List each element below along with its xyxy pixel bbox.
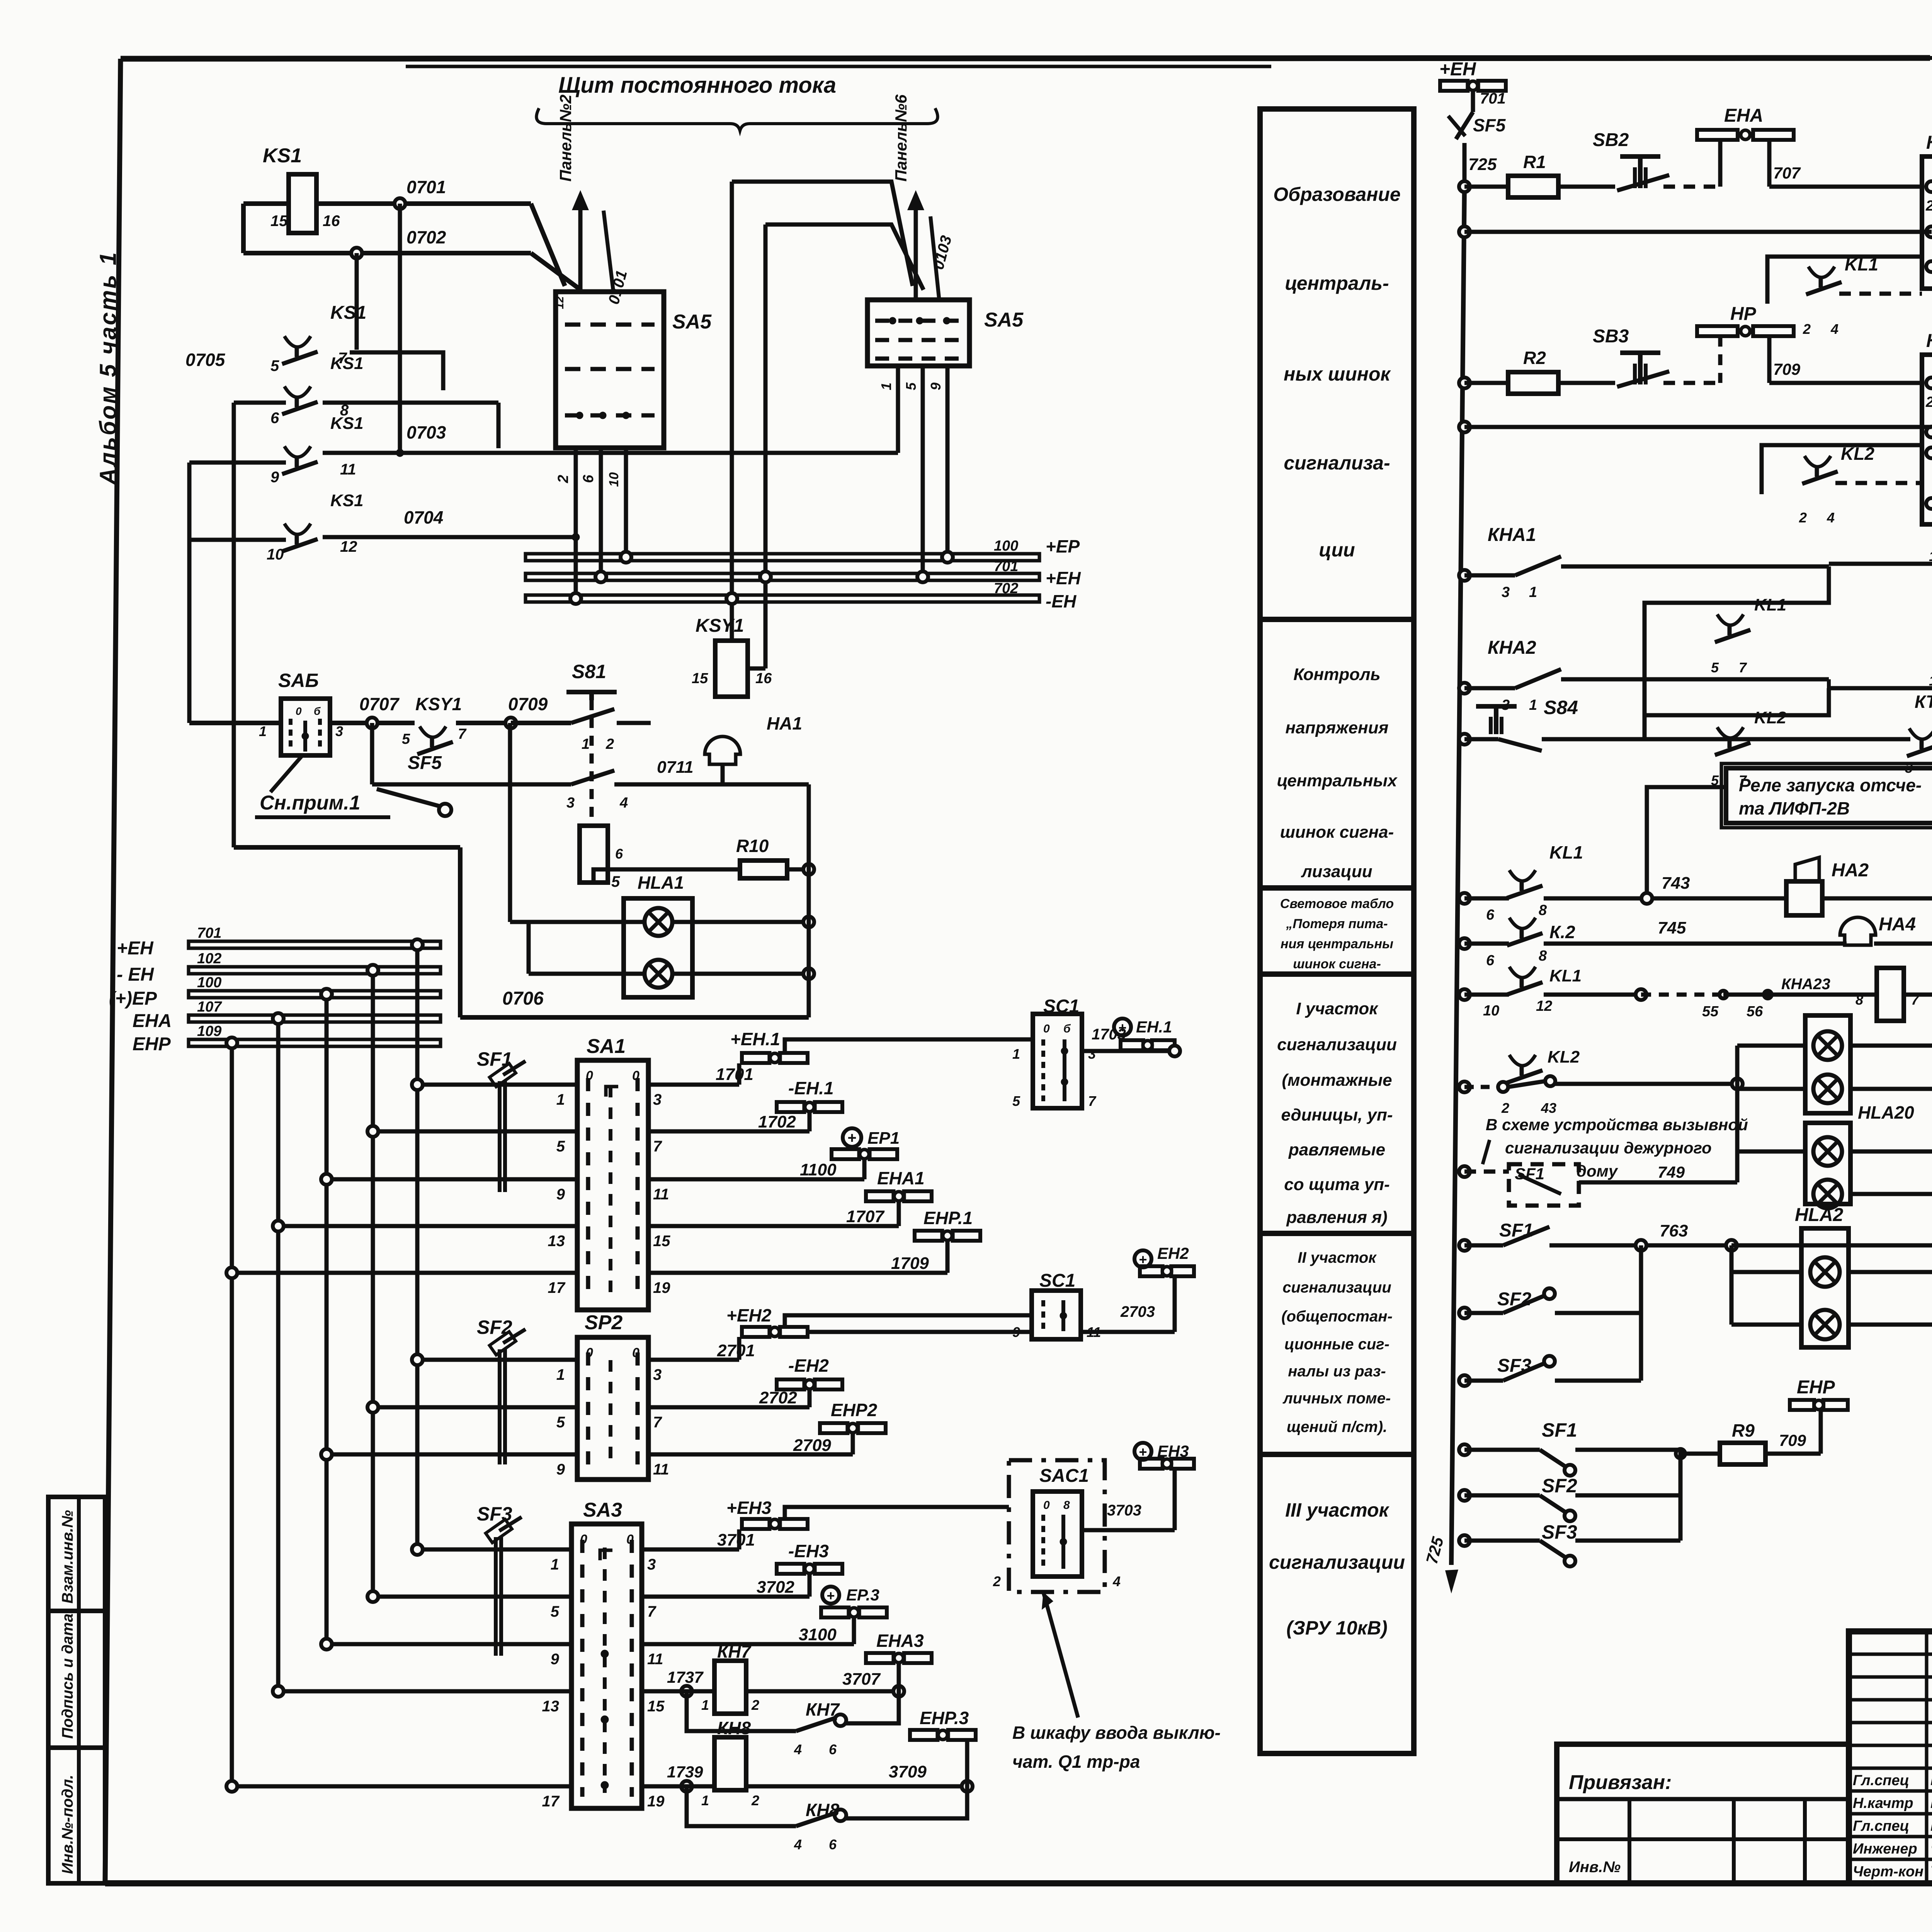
svg-text:2: 2: [751, 1793, 759, 1808]
svg-text:В шкафу ввода выклю-: В шкафу ввода выклю-: [1012, 1723, 1221, 1743]
svg-text:0: 0: [626, 1532, 634, 1547]
svg-text:3703: 3703: [1107, 1502, 1141, 1519]
lamp box HLA1: [510, 723, 814, 997]
svg-text:III участок: III участок: [1285, 1499, 1389, 1521]
lamp box HLA2: [1731, 1194, 1932, 1347]
SA3 row 1-3 wire: [412, 1544, 656, 1573]
SA5-2 pin stems: [878, 366, 947, 577]
svg-text:ционные сиг-: ционные сиг-: [1284, 1336, 1389, 1353]
switch block SP2: [577, 1311, 648, 1480]
svg-text:Привязан:: Привязан:: [1569, 1771, 1672, 1794]
svg-text:ЕНР: ЕНР: [133, 1034, 171, 1054]
svg-text:2: 2: [1501, 1100, 1509, 1116]
svg-text:7: 7: [653, 1414, 662, 1431]
svg-text:3709: 3709: [889, 1762, 927, 1781]
svg-text:0: 0: [632, 1345, 639, 1360]
svg-text:Тимофеева: Тимофеева: [1930, 1863, 1932, 1880]
svg-text:2701: 2701: [717, 1341, 755, 1360]
svg-text:ЕН2: ЕН2: [1157, 1244, 1189, 1262]
svg-text:743: 743: [1662, 874, 1690, 893]
svg-text:KL1: KL1: [1549, 842, 1583, 862]
contact KS1 10-12 wire 0704: [189, 463, 579, 563]
svg-text:Гл.спец: Гл.спец: [1853, 1772, 1909, 1789]
SP2 row 1-3 wire: [412, 1354, 662, 1383]
svg-text:КНА2: КНА2: [1488, 638, 1536, 658]
svg-text:9: 9: [270, 469, 279, 486]
svg-text:5: 5: [556, 1414, 565, 1431]
coil KT1: [1781, 944, 1932, 1021]
svg-text:ЕНР.1: ЕНР.1: [923, 1208, 973, 1228]
svg-text:8: 8: [1063, 1499, 1070, 1512]
contact KSY1 5-7: [402, 694, 511, 754]
svg-text:4: 4: [794, 1742, 802, 1757]
svg-text:1739: 1739: [667, 1763, 703, 1781]
+EH terminal top: [1439, 59, 1506, 112]
svg-text:15: 15: [653, 1233, 670, 1250]
svg-text:0: 0: [586, 1345, 593, 1360]
svg-text:ЕНА: ЕНА: [133, 1011, 172, 1031]
svg-text:Н.качтр: Н.качтр: [1853, 1795, 1913, 1811]
svg-text:SAБ: SAБ: [278, 670, 319, 691]
svg-text:3: 3: [335, 723, 343, 739]
svg-text:13: 13: [542, 1698, 560, 1715]
svg-text:5: 5: [1012, 1093, 1020, 1109]
svg-text:SF3: SF3: [1542, 1521, 1577, 1543]
svg-text:Черт-кон: Черт-кон: [1853, 1864, 1923, 1880]
row 725-707: R1 SB2 EHA to KHA2: [1459, 152, 1615, 197]
svg-text:4: 4: [1827, 510, 1835, 526]
svg-text:8: 8: [1539, 902, 1547, 918]
svg-text:SC1: SC1: [1039, 1270, 1075, 1291]
breaker SF1: [477, 1048, 526, 1192]
svg-text:0101: 0101: [605, 269, 631, 306]
sidebar box Podpis i data: [48, 1611, 105, 1748]
svg-text:КНА2: КНА2: [1926, 331, 1932, 351]
contact KL2 (5-7) under bracket: [1645, 688, 1829, 788]
svg-text:6: 6: [1486, 907, 1495, 923]
svg-text:НА4: НА4: [1879, 914, 1916, 935]
svg-text:SA5: SA5: [672, 311, 712, 333]
relay KH7: [642, 1631, 932, 1714]
svg-text:со щита уп-: со щита уп-: [1284, 1175, 1389, 1194]
selector SC1 no.2: [810, 1244, 1194, 1340]
button SB2: [1593, 130, 1720, 190]
svg-text:-ЕН.1: -ЕН.1: [788, 1078, 834, 1098]
svg-text:0704: 0704: [404, 507, 443, 527]
contact KL1 (6-8) row 743: [1459, 842, 1786, 923]
svg-text:3702: 3702: [757, 1578, 794, 1597]
sidebar box Vzam inv: [48, 1497, 105, 1611]
svg-text:KL2: KL2: [1841, 444, 1874, 464]
svg-text:сигнализации: сигнализации: [1269, 1551, 1405, 1573]
svg-text:SB2: SB2: [1593, 130, 1629, 150]
svg-text:5: 5: [903, 382, 919, 390]
svg-text:KS1: KS1: [330, 303, 366, 323]
contact KL1 latch (2-4): [1767, 254, 1922, 337]
svg-text:12: 12: [1536, 998, 1552, 1014]
svg-text:0: 0: [1043, 1499, 1050, 1512]
button SB3: [1593, 326, 1720, 387]
svg-text:(+)ЕР: (+)ЕР: [109, 988, 157, 1009]
relay start box LIFP: [1647, 764, 1932, 898]
svg-text:9: 9: [556, 1461, 565, 1478]
resistor R9: [1680, 1420, 1821, 1464]
svg-text:10: 10: [267, 546, 284, 563]
svg-text:8: 8: [1855, 992, 1863, 1008]
svg-text:0707: 0707: [359, 694, 400, 714]
svg-text:HA1: HA1: [767, 713, 802, 733]
svg-text:ЕНА: ЕНА: [1724, 105, 1763, 126]
svg-text:2709: 2709: [793, 1436, 831, 1455]
svg-text:напряжения: напряжения: [1286, 718, 1389, 737]
svg-text:личных поме-: личных поме-: [1282, 1390, 1391, 1407]
svg-text:+: +: [1139, 1252, 1147, 1267]
relay KH8: [642, 1708, 976, 1808]
sidebar box Inv no podl: [48, 1748, 105, 1883]
svg-text:9: 9: [556, 1186, 565, 1203]
see note 1: [255, 757, 390, 817]
svg-text:(общепостан-: (общепостан-: [1281, 1308, 1393, 1325]
svg-text:0: 0: [586, 1068, 593, 1083]
svg-text:3: 3: [566, 795, 575, 811]
svg-text:I участок: I участок: [1296, 999, 1379, 1018]
svg-text:SF1: SF1: [1499, 1220, 1533, 1241]
coil KL2: [1829, 663, 1932, 712]
svg-text:0: 0: [632, 1068, 639, 1083]
svg-text:та ЛИФП-2В: та ЛИФП-2В: [1739, 798, 1850, 818]
wire 0701: [243, 177, 531, 209]
svg-text:дому: дому: [1577, 1162, 1619, 1180]
svg-text:KS1: KS1: [263, 145, 302, 167]
SA1 row3 out to +EH.1: [648, 1029, 1033, 1085]
svg-text:+: +: [827, 1588, 835, 1604]
SA1 row 9-11 wire: [321, 1174, 669, 1203]
svg-text:равляемые: равляемые: [1288, 1140, 1385, 1159]
svg-text:16: 16: [323, 213, 340, 230]
svg-text:6: 6: [270, 410, 279, 427]
svg-text:19: 19: [1929, 673, 1932, 689]
svg-text:19: 19: [653, 1279, 670, 1296]
svg-text:„Потеря пита-: „Потеря пита-: [1286, 917, 1388, 931]
svg-text:9: 9: [551, 1651, 560, 1668]
svg-text:К.2: К.2: [1549, 922, 1575, 942]
wire 0709: [505, 694, 571, 728]
contact KL2 latch (2-4): [1762, 444, 1932, 526]
svg-text:Инв.№: Инв.№: [1569, 1859, 1621, 1876]
svg-text:2: 2: [605, 736, 614, 752]
svg-text:763: 763: [1660, 1221, 1688, 1240]
second SF1 contact group: [1459, 1419, 1685, 1476]
svg-text:+ЕН: +ЕН: [117, 938, 154, 959]
svg-text:HLA2: HLA2: [1795, 1205, 1844, 1225]
svg-text:100: 100: [994, 538, 1018, 554]
svg-text:4: 4: [619, 795, 628, 811]
svg-text:1: 1: [701, 1793, 709, 1808]
svg-text:Инв.№-подл.: Инв.№-подл.: [59, 1775, 76, 1874]
svg-text:2: 2: [993, 1573, 1001, 1589]
svg-text:1: 1: [556, 1091, 565, 1108]
svg-text:3: 3: [647, 1556, 656, 1573]
svg-text:8: 8: [1539, 948, 1547, 964]
svg-text:централь-: централь-: [1285, 272, 1389, 294]
svg-text:1702: 1702: [758, 1112, 796, 1131]
svg-text:+ЕН.1: +ЕН.1: [730, 1029, 780, 1049]
svg-text:1: 1: [878, 383, 894, 390]
note box vyzyvnaya signalizatsiya: [1483, 1116, 1758, 1181]
svg-text:701: 701: [197, 925, 221, 941]
svg-text:2: 2: [751, 1697, 759, 1713]
svg-text:KL1: KL1: [1754, 595, 1786, 614]
svg-text:HLA20: HLA20: [1858, 1102, 1914, 1122]
svg-text:17: 17: [548, 1279, 566, 1296]
svg-text:KL1: KL1: [1845, 254, 1878, 274]
svg-text:II участок: II участок: [1298, 1249, 1377, 1266]
svg-text:17: 17: [542, 1793, 560, 1810]
Shchit postoyannogo toka label: [536, 73, 937, 131]
switch SA5 no.2: [867, 300, 1024, 366]
svg-text:6: 6: [829, 1837, 837, 1852]
contact KL1 (10-12): [1459, 966, 1877, 1020]
title block: [1849, 1631, 1932, 1885]
svg-text:(ЗРУ 10кВ): (ЗРУ 10кВ): [1286, 1617, 1388, 1639]
SA3 row 5-7 wire: [367, 1591, 656, 1620]
svg-text:13: 13: [548, 1233, 565, 1250]
svg-text:707: 707: [1773, 164, 1801, 182]
svg-text:чат. Q1 тр-ра: чат. Q1 тр-ра: [1012, 1752, 1140, 1772]
svg-text:ЕР1: ЕР1: [867, 1129, 900, 1148]
svg-text:ции: ции: [1319, 539, 1355, 561]
svg-text:1709: 1709: [891, 1254, 929, 1273]
svg-text:ных шинок: ных шинок: [1284, 363, 1391, 385]
dashed box SF1: [1459, 1164, 1737, 1206]
selector SAC1 dash-dot box: [810, 1442, 1194, 1592]
middle annotation column: [1260, 109, 1414, 1753]
svg-text:1703: 1703: [1092, 1026, 1126, 1043]
lamp box HLA20: [1737, 1084, 1932, 1208]
svg-text:725: 725: [1468, 155, 1497, 174]
second SF3 contact: [1459, 1450, 1680, 1566]
svg-text:0: 0: [296, 705, 302, 717]
svg-text:сигнализации дежурного: сигнализации дежурного: [1505, 1139, 1712, 1157]
svg-text:Чепнова: Чепнова: [1930, 1840, 1932, 1857]
svg-text:6: 6: [1486, 952, 1495, 969]
svg-text:3701: 3701: [717, 1531, 755, 1549]
relay box KHA2 no.2: [1922, 331, 1932, 524]
svg-text:5: 5: [556, 1138, 565, 1155]
svg-text:6: 6: [615, 846, 623, 862]
svg-text:1707: 1707: [846, 1207, 885, 1226]
+EH3 link: [642, 1498, 1009, 1549]
feeder verticals: [226, 939, 423, 1786]
contact KT1 (3-5): [1905, 692, 1932, 776]
SA3 row 13-15 wire: [273, 1686, 665, 1715]
svg-text:S81: S81: [572, 661, 606, 682]
svg-text:4: 4: [1112, 1573, 1121, 1589]
svg-text:3707: 3707: [842, 1670, 881, 1689]
S81 second contact 3-4: [444, 758, 809, 811]
svg-text:Подпись и дата: Подпись и дата: [59, 1614, 76, 1739]
svg-text:SP2: SP2: [585, 1311, 622, 1334]
svg-text:единицы, уп-: единицы, уп-: [1281, 1105, 1393, 1124]
svg-text:109: 109: [197, 1023, 221, 1039]
svg-text:0: 0: [1043, 1022, 1050, 1035]
svg-text:0703: 0703: [406, 422, 446, 442]
svg-text:Альбом 5 часть 1: Альбом 5 часть 1: [95, 251, 121, 486]
row: bus to KHA2-2 pin 11: [1459, 422, 1932, 432]
svg-text:ния центральны: ния центральны: [1281, 937, 1393, 951]
svg-text:3: 3: [1502, 584, 1510, 600]
contact KS1 6-8: [185, 350, 498, 448]
bell HA4: [1840, 900, 1932, 949]
privyazan box: [1557, 1744, 1849, 1883]
relay box KHA2 no.1: [1922, 133, 1932, 289]
contact KL2 (6-8) row 745: [1459, 918, 1847, 969]
svg-text:-EH: -EH: [1046, 591, 1077, 611]
svg-text:102: 102: [197, 951, 221, 967]
svg-text:1: 1: [1012, 1046, 1020, 1062]
svg-text:KL2: KL2: [1548, 1048, 1580, 1066]
svg-text:R10: R10: [736, 836, 769, 856]
svg-text:ЕР.3: ЕР.3: [846, 1586, 879, 1604]
svg-text:15: 15: [270, 213, 288, 230]
svg-text:Светοвое табло: Светοвое табло: [1280, 896, 1394, 911]
svg-text:HLA1: HLA1: [638, 872, 684, 893]
svg-text:702: 702: [994, 580, 1018, 597]
svg-text:+: +: [847, 1129, 856, 1146]
(+)EP.3 link: [642, 1586, 887, 1644]
contact KH8 4-6: [687, 1786, 967, 1852]
resistor R10: [736, 836, 814, 878]
svg-text:1: 1: [1529, 697, 1537, 713]
svg-text:R2: R2: [1523, 348, 1546, 368]
contact SF2: [1459, 1245, 1641, 1318]
svg-text:KSY1: KSY1: [696, 616, 744, 636]
svg-text:сигнализации: сигнализации: [1277, 1035, 1397, 1054]
svg-text:701: 701: [1480, 90, 1506, 107]
contact KL2 (10-12) dashed row: [1459, 1048, 1743, 1116]
svg-text:Инженер: Инженер: [1853, 1841, 1917, 1857]
svg-text:+EH: +EH: [1046, 568, 1081, 588]
contact KHA2 (3-1): [1459, 638, 1829, 713]
panel No2 arrow: [556, 95, 631, 306]
switch block SA1: [577, 1035, 648, 1310]
svg-text:11: 11: [653, 1186, 669, 1203]
link EHP right: [1790, 1377, 1848, 1454]
svg-text:Гл.спец: Гл.спец: [1853, 1818, 1909, 1834]
svg-text:100: 100: [197, 975, 221, 991]
svg-text:б: б: [1063, 1022, 1071, 1035]
svg-text:0705: 0705: [185, 350, 226, 370]
svg-text:56: 56: [1747, 1003, 1763, 1020]
svg-text:7: 7: [647, 1603, 656, 1620]
coil KL1: [1829, 521, 1932, 587]
svg-text:21: 21: [1925, 394, 1932, 410]
svg-text:Панель№6: Панель№6: [892, 94, 910, 182]
svg-text:15: 15: [692, 670, 708, 687]
svg-text:S84: S84: [1544, 697, 1578, 718]
svg-text:0706: 0706: [502, 988, 544, 1009]
-EH3 link: [642, 1541, 842, 1597]
contact KH7 4-6: [687, 1691, 899, 1757]
svg-text:0702: 0702: [406, 227, 446, 247]
svg-text:KS1: KS1: [330, 354, 364, 373]
svg-text:1: 1: [556, 1366, 565, 1383]
svg-text:SA5: SA5: [984, 309, 1024, 331]
svg-text:7: 7: [458, 726, 467, 742]
svg-text:+ЕН: +ЕН: [1439, 59, 1476, 80]
svg-text:KL2: KL2: [1754, 708, 1787, 727]
svg-text:6: 6: [829, 1742, 837, 1757]
SA1 row 13-15 wire: [273, 1221, 670, 1250]
svg-text:12: 12: [553, 296, 566, 309]
svg-text:- ЕН: - ЕН: [117, 964, 154, 985]
svg-text:2: 2: [555, 475, 571, 483]
SA1 row11 out to (+)EP1: [648, 1128, 900, 1179]
svg-text:9: 9: [928, 383, 944, 390]
svg-text:725: 725: [1422, 1535, 1447, 1566]
svg-text:SAC1: SAC1: [1039, 1466, 1089, 1486]
contact KS1 5-7: [270, 253, 443, 390]
svg-text:+EP: +EP: [1046, 536, 1080, 556]
svg-text:КНА23: КНА23: [1781, 976, 1830, 993]
SP2 row 5-7 wire: [367, 1402, 662, 1431]
svg-text:1: 1: [701, 1697, 709, 1713]
SA3 row 17-19 wire: [226, 1781, 665, 1810]
svg-text:+: +: [1139, 1444, 1147, 1460]
svg-text:5: 5: [270, 357, 279, 374]
svg-text:1: 1: [1529, 584, 1537, 600]
svg-text:налы из раз-: налы из раз-: [1288, 1363, 1386, 1380]
svg-text:Сн.прим.1: Сн.прим.1: [260, 792, 361, 814]
slant feeds into SA5-1: [531, 204, 565, 286]
dropper resistor 6: [580, 826, 740, 883]
svg-text:НР: НР: [1730, 304, 1757, 324]
SA5-1 pin stems: [555, 448, 626, 599]
svg-text:11: 11: [653, 1461, 669, 1478]
+EH2 link: [648, 1305, 1032, 1360]
svg-text:0701: 0701: [406, 177, 446, 197]
svg-text:KS1: KS1: [330, 414, 364, 433]
contact SF1 row 763: [1459, 1220, 1932, 1325]
svg-text:ЕНА3: ЕНА3: [876, 1631, 924, 1651]
button S81: [566, 661, 651, 826]
panel No6 arrow: [892, 94, 955, 300]
svg-text:R1: R1: [1523, 152, 1546, 172]
svg-text:Горелик: Горелик: [1930, 1817, 1932, 1834]
SA1 row 5-7 wire: [367, 1126, 662, 1155]
svg-text:7: 7: [1088, 1093, 1097, 1109]
svg-text:3: 3: [1088, 1046, 1096, 1062]
svg-text:SF5: SF5: [408, 753, 442, 773]
SA1 row 1-3 wire: [412, 1079, 662, 1108]
svg-text:щений п/ст).: щений п/ст).: [1287, 1418, 1388, 1435]
svg-text:5: 5: [611, 873, 620, 890]
svg-text:шинок сигна-: шинок сигна-: [1280, 823, 1394, 842]
contact SF3: [1459, 1313, 1641, 1386]
svg-text:16: 16: [755, 670, 772, 687]
svg-text:центральных: центральных: [1277, 771, 1398, 790]
bus 725 end arrow: [1422, 1535, 1458, 1594]
svg-text:-ЕН2: -ЕН2: [788, 1355, 829, 1376]
switch block SA3: [571, 1499, 642, 1808]
svg-text:ЕНР: ЕНР: [1797, 1377, 1835, 1398]
switch SA5 no.1: [553, 292, 712, 448]
svg-text:1: 1: [551, 1556, 559, 1573]
svg-text:2702: 2702: [759, 1388, 797, 1407]
bell HA1: [705, 713, 802, 784]
contact KL1 (5-7) under bracket: [1645, 566, 1829, 739]
svg-text:7: 7: [1739, 660, 1747, 675]
